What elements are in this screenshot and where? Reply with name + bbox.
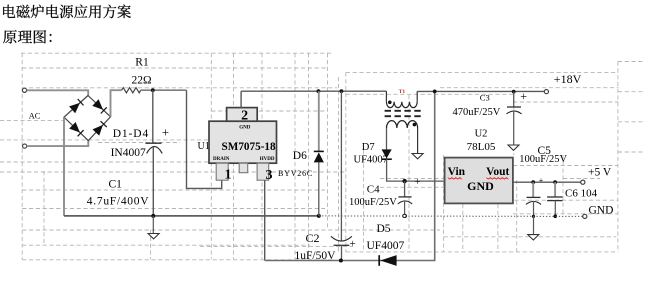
svg-text:100uF/25V: 100uF/25V [519, 154, 567, 165]
squiggle under Vin [448, 178, 462, 180]
capacitor C6 [554, 182, 556, 197]
op-amp U1 SM7075-18 body [209, 121, 277, 163]
svg-text:+5 V: +5 V [588, 167, 612, 179]
svg-text:D7: D7 [362, 142, 375, 153]
transformer T1 primary [385, 91, 387, 102]
svg-text:D1-D4: D1-D4 [113, 128, 149, 140]
svg-text:100uF/25V: 100uF/25V [349, 197, 397, 208]
node D6/rail [317, 214, 321, 218]
capacitor C4 [404, 181, 406, 197]
core [385, 111, 421, 116]
svg-text:C1: C1 [109, 179, 123, 191]
svg-text:+: + [539, 176, 544, 185]
diode D6 [318, 91, 320, 151]
wire pin3 HVDD down [264, 180, 266, 260]
svg-text:D6: D6 [293, 150, 307, 162]
terminal +5V [581, 180, 585, 184]
svg-text:T1: T1 [399, 89, 406, 95]
svg-text:UF4007: UF4007 [354, 155, 388, 166]
wire top rail pin2 to transformer [241, 90, 386, 92]
svg-text:U2: U2 [475, 129, 488, 140]
svg-text:C4: C4 [367, 183, 380, 195]
wire Vout to +5V [513, 181, 581, 183]
terminal AC line 1 [22, 88, 26, 92]
phase dot primary [388, 101, 392, 105]
svg-text:2: 2 [241, 108, 248, 123]
wire +18V rail [417, 90, 544, 92]
svg-text:U1: U1 [198, 141, 210, 152]
pin 1 box [216, 163, 228, 180]
svg-text:Vout: Vout [486, 166, 509, 178]
resistor R1 [122, 88, 141, 93]
svg-text:470uF/25V: 470uF/25V [453, 107, 501, 118]
capacitor C5 [532, 182, 534, 197]
diode D7 [386, 128, 388, 149]
node C4 top [402, 179, 406, 183]
svg-text:UF4007: UF4007 [367, 240, 405, 252]
wire dotted GND bus [319, 215, 583, 218]
diode D5 [378, 255, 380, 266]
wire bridge left vertex down to ground rail [63, 117, 65, 216]
diode D3 (bottom-left edge) [69, 122, 80, 133]
svg-text:GND: GND [589, 204, 614, 216]
svg-text:1: 1 [225, 168, 232, 183]
svg-text:+: + [520, 89, 527, 103]
open terminal C4 bottom [403, 214, 407, 217]
node +18 riser [433, 90, 437, 94]
capacitor C2 [340, 91, 342, 240]
terminal GND [583, 214, 587, 218]
svg-text:AC: AC [29, 111, 41, 120]
diode D1 (top-left edge) [69, 103, 80, 113]
svg-text:+: + [350, 238, 356, 250]
wire AC2 to bridge bottom [27, 141, 89, 147]
bridge rectifier D1-D4 [64, 96, 111, 141]
svg-text:4.7uF/400V: 4.7uF/400V [87, 196, 149, 208]
svg-text:GND: GND [467, 179, 494, 193]
phase dot secondary [413, 123, 417, 127]
ground symbol (C5) [528, 235, 539, 240]
node C6 [553, 180, 557, 184]
ground symbol (secondary) [412, 154, 423, 159]
svg-text:D5: D5 [377, 223, 391, 235]
svg-text:+: + [162, 124, 169, 139]
svg-text:BYV26C: BYV26C [278, 169, 313, 178]
svg-text:22Ω: 22Ω [132, 75, 152, 87]
ground symbol (primary) [152, 216, 154, 234]
svg-text:GND: GND [239, 126, 251, 131]
svg-text:R1: R1 [135, 56, 149, 68]
subtitle 原理图： [3, 30, 51, 43]
wire secondary right lead to ground [417, 128, 419, 154]
svg-text:+: + [415, 177, 421, 188]
svg-text:3: 3 [266, 168, 273, 183]
node C2/bottom rail [339, 259, 343, 263]
svg-text:HVDD: HVDD [260, 157, 275, 162]
node C3 [512, 90, 516, 94]
node junction R1/C1/U1 [151, 88, 155, 92]
svg-text:C2: C2 [306, 231, 320, 245]
svg-text:Vin: Vin [448, 166, 466, 178]
capacitor C3 [513, 92, 515, 107]
svg-text:IN4007: IN4007 [111, 147, 146, 159]
wire pin2 riser [240, 91, 242, 107]
wire bridge right vertex up to R1 [111, 90, 122, 117]
svg-text:+18V: +18V [554, 72, 582, 86]
wire AC1 to bridge top [27, 90, 89, 95]
svg-text:78L05: 78L05 [467, 141, 496, 153]
pin middle box [239, 163, 248, 173]
squiggle under Vout [486, 178, 508, 180]
svg-text:C6 104: C6 104 [565, 187, 598, 199]
node C5 [531, 180, 535, 184]
diode D2 (top-right edge) [92, 99, 103, 110]
svg-text:SM7075-18: SM7075-18 [222, 141, 276, 153]
node D6 top [317, 89, 321, 93]
terminal AC line 2 [23, 144, 27, 148]
wire primary ground rail [64, 215, 319, 217]
diode D4 (bottom-right edge) [93, 125, 103, 136]
regulator U2 78L05 body [445, 158, 513, 204]
wire bottom rail HVDD to D5 to +18 riser [265, 91, 435, 260]
pin 3 box [257, 163, 269, 180]
terminal +18V [544, 90, 548, 94]
capacitor C1 [152, 90, 154, 143]
wire down to U1 drain (pin 1) [187, 90, 222, 188]
wire R1 to junction [141, 89, 187, 91]
node C1/rail [151, 214, 155, 218]
pin 2 box [227, 108, 258, 122]
ground symbol (C3) [508, 145, 519, 150]
svg-text:C3: C3 [480, 93, 490, 103]
node C2 top [340, 89, 344, 93]
title 电磁炉电源应用方案 [3, 5, 131, 19]
svg-text:DRAIN: DRAIN [213, 157, 230, 162]
transformer T1 secondary [387, 121, 418, 128]
